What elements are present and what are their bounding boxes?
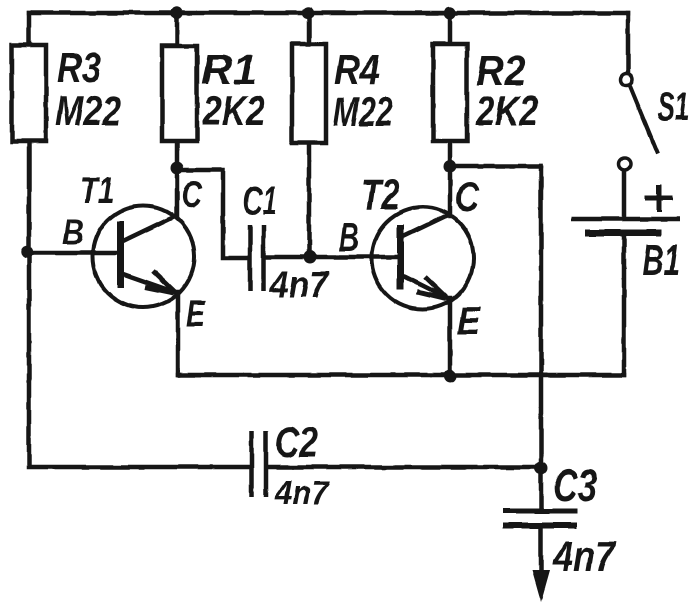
node dot under R2 xyxy=(444,160,457,173)
node dot top rail at R4 xyxy=(302,7,314,19)
capacitor C2 xyxy=(252,431,267,497)
resistor R2 xyxy=(433,44,467,141)
wire left rail top lead to R3 xyxy=(27,13,32,46)
switch S1 xyxy=(619,74,659,171)
wire left rail from R3 down and to C2 left plate xyxy=(29,140,249,467)
wire T2 base node to T2 xyxy=(310,255,398,260)
wire T2 collector xyxy=(448,166,453,216)
output arrow xyxy=(532,570,550,602)
node dot under R1 xyxy=(171,162,184,175)
capacitor C1 xyxy=(250,225,264,291)
svg-text:B: B xyxy=(62,213,84,252)
transistor T2 xyxy=(372,207,474,309)
wire node under R1 to C1 left plate xyxy=(179,170,248,258)
wire T2 collector node to right column xyxy=(450,164,541,169)
wire T1 collector xyxy=(175,168,180,216)
svg-text:R1: R1 xyxy=(201,46,257,93)
wire T1 base xyxy=(29,251,118,256)
node dot top rail at R1 xyxy=(171,7,183,19)
svg-text:4n7: 4n7 xyxy=(552,533,617,581)
svg-text:4n7: 4n7 xyxy=(274,474,331,511)
svg-text:C1: C1 xyxy=(243,179,277,223)
wire R1 top lead xyxy=(175,13,180,46)
wire C2 right plate to C3 node xyxy=(268,465,541,470)
capacitor C3 xyxy=(503,511,577,526)
svg-text:B: B xyxy=(339,214,359,260)
wire R4 bottom lead to T2 base node xyxy=(307,140,312,257)
node dot C2-C3 junction xyxy=(535,462,548,475)
node dot T2 base xyxy=(304,251,317,264)
svg-text:M22: M22 xyxy=(55,87,121,134)
svg-text:T1: T1 xyxy=(80,170,114,211)
svg-text:4n7: 4n7 xyxy=(269,264,330,305)
svg-text:R3: R3 xyxy=(57,44,101,91)
svg-text:E: E xyxy=(457,300,481,343)
svg-text:C: C xyxy=(181,174,203,215)
resistor R4 xyxy=(292,44,326,143)
svg-text:T2: T2 xyxy=(361,171,400,219)
wire T1 emitter down xyxy=(176,292,181,375)
node dot T2 emitter on bus xyxy=(444,370,457,383)
svg-text:E: E xyxy=(186,293,206,334)
wire R4 top lead xyxy=(307,13,312,46)
svg-text:C: C xyxy=(455,174,480,220)
battery B1 xyxy=(571,184,680,233)
svg-text:B1: B1 xyxy=(642,236,680,285)
svg-text:M22: M22 xyxy=(333,88,393,135)
wire emitter ground bus xyxy=(178,373,624,378)
svg-text:2K2: 2K2 xyxy=(202,87,265,134)
svg-text:2K2: 2K2 xyxy=(475,87,538,134)
wire R2 bottom lead to node xyxy=(448,140,453,166)
svg-text:S1: S1 xyxy=(657,85,689,129)
wire C3 output lead xyxy=(539,526,544,574)
wire switch to battery xyxy=(622,170,627,217)
resistor R1 xyxy=(162,46,197,141)
svg-text:C3: C3 xyxy=(553,460,597,511)
wire R2 top lead xyxy=(448,13,453,46)
wire T2 emitter down xyxy=(448,298,453,375)
node dot left rail T1 base xyxy=(21,246,33,258)
wire right column down to C3 xyxy=(539,166,544,511)
wire top supply rail xyxy=(29,11,628,16)
transistor T1 xyxy=(93,206,195,308)
svg-text:R4: R4 xyxy=(334,46,380,93)
wire battery negative down to bus xyxy=(622,236,627,375)
resistor R3 xyxy=(12,45,46,141)
wire top rail corner to switch xyxy=(626,13,631,73)
node dot top rail at R2 xyxy=(444,7,456,19)
wire C1 right plate to T2 base node xyxy=(266,255,310,260)
svg-text:C2: C2 xyxy=(275,419,318,467)
wire R1 bottom lead to node xyxy=(175,140,180,168)
